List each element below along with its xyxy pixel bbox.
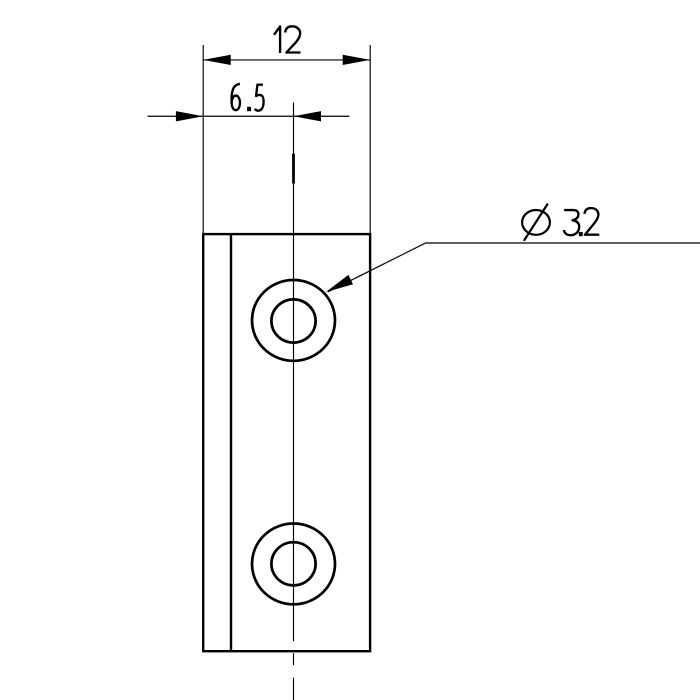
hole callout text: diameter symbol <box>522 204 550 241</box>
centerline end dash to page bottom <box>293 678 295 700</box>
hole H1 bore circle (top) <box>271 299 315 342</box>
dimension line for 6.5 <box>148 115 350 117</box>
leader line for hole callout <box>328 243 700 292</box>
arrowhead dim 6.5 left (outside, pointing right) <box>176 111 203 121</box>
leader arrowhead at hole edge <box>326 275 353 292</box>
vertical centerline through holes <box>293 184 295 641</box>
centerline long dash above part <box>292 154 295 184</box>
part left step edge <box>230 234 232 651</box>
part outline (plate front view) <box>203 234 370 651</box>
dimension text 12 <box>274 26 301 53</box>
extension line for dim 6.5 at hole centerline <box>293 103 295 154</box>
dimension text 6.5 <box>232 84 264 111</box>
centerline short dash below part <box>293 653 295 665</box>
hole callout text: 3.2 <box>564 208 599 235</box>
extension line left (shared by dims 12 and 6.5) <box>202 45 204 234</box>
dimension line for 12 <box>203 59 370 61</box>
decimal point of 3.2 <box>579 232 583 236</box>
arrowhead dim 12 right <box>343 55 371 65</box>
decimal point of 6.5 <box>247 107 251 111</box>
hole H1 counterbore circle (top) <box>252 280 335 361</box>
extension line right for dim 12 <box>369 45 371 234</box>
hole H2 bore circle (bottom) <box>271 542 315 585</box>
arrowhead dim 6.5 right (outside, pointing left) <box>294 111 322 121</box>
arrowhead dim 12 left <box>203 55 231 65</box>
hole H2 counterbore circle (bottom) <box>252 524 335 605</box>
